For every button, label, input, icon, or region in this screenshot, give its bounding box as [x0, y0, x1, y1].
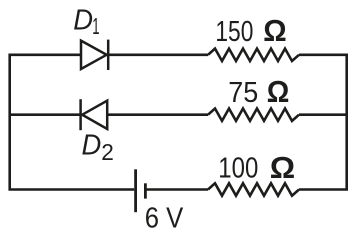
svg-text:D: D — [82, 130, 102, 162]
wire: top-left segment + left rail + bottom-left segment — [10, 55, 135, 190]
wire: bottom middle (battery to 100-ohm resistor) — [146, 188, 209, 191]
svg-text:Ω: Ω — [267, 74, 290, 109]
svg-text:1: 1 — [92, 13, 99, 39]
wire: middle-right (75-ohm resistor to right rail) — [299, 113, 347, 116]
wire: top-right segment + right rail + bottom-right segment — [299, 55, 347, 190]
label 100 ohm — [218, 150, 295, 185]
svg-text:D: D — [73, 5, 93, 37]
wire: middle-left (left rail to D2 cathode) — [10, 113, 81, 116]
resistor 150-ohm — [208, 49, 299, 61]
svg-text:75: 75 — [228, 77, 258, 109]
label D1 — [73, 5, 99, 40]
label 75 ohm — [228, 74, 289, 109]
svg-text:2: 2 — [101, 139, 114, 165]
label D2 — [82, 130, 114, 165]
label 150 ohm — [215, 13, 286, 48]
diode D1 (anode left, cathode right) — [81, 40, 108, 70]
wire: middle (D2 anode to 75-ohm resistor) — [107, 113, 208, 116]
wire: top middle (D1 cathode to 150-ohm resistor) — [108, 53, 208, 56]
diode D2 (cathode left, anode right) — [81, 99, 108, 130]
resistor 100-ohm — [208, 183, 299, 195]
battery 6 V (long plate = positive, left) — [136, 169, 146, 212]
svg-text:6 V: 6 V — [145, 202, 184, 234]
resistor 75-ohm — [208, 109, 299, 121]
svg-text:Ω: Ω — [270, 150, 295, 185]
svg-text:Ω: Ω — [263, 13, 286, 48]
svg-text:150: 150 — [215, 16, 253, 48]
svg-text:100: 100 — [218, 153, 258, 185]
